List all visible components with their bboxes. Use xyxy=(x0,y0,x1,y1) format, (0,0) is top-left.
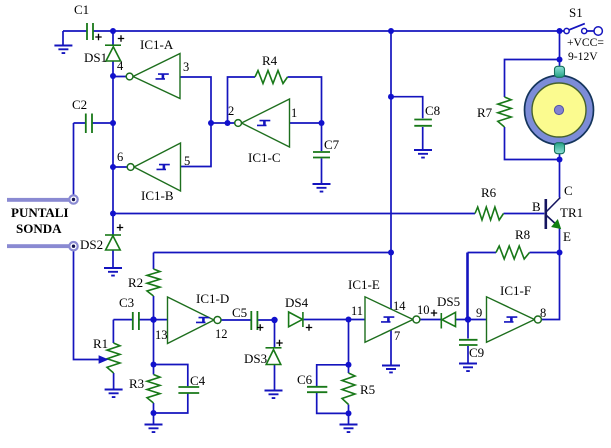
svg-text:IC1-B: IC1-B xyxy=(141,188,174,203)
svg-text:C2: C2 xyxy=(72,97,87,112)
svg-text:12: 12 xyxy=(215,327,228,341)
svg-text:+VCC=: +VCC= xyxy=(567,36,604,49)
svg-text:DS4: DS4 xyxy=(285,295,309,310)
svg-text:IC1-F: IC1-F xyxy=(500,283,531,298)
svg-text:C8: C8 xyxy=(425,103,440,118)
svg-text:PUNTALI: PUNTALI xyxy=(11,205,69,220)
svg-text:4: 4 xyxy=(117,59,124,73)
svg-text:IC1-D: IC1-D xyxy=(196,291,229,306)
svg-text:10: 10 xyxy=(417,303,430,317)
svg-text:DS2: DS2 xyxy=(80,237,103,252)
svg-text:IC1-A: IC1-A xyxy=(140,37,174,52)
svg-text:C9: C9 xyxy=(469,345,484,360)
svg-text:DS3: DS3 xyxy=(244,351,267,366)
svg-text:IC1-C: IC1-C xyxy=(248,150,281,165)
svg-text:R8: R8 xyxy=(515,227,530,242)
svg-text:C7: C7 xyxy=(324,137,340,152)
svg-text:DS5: DS5 xyxy=(437,294,460,309)
svg-text:11: 11 xyxy=(351,304,363,318)
svg-text:R4: R4 xyxy=(262,53,278,68)
svg-text:S1: S1 xyxy=(569,5,583,20)
svg-text:R1: R1 xyxy=(93,336,108,351)
svg-text:C6: C6 xyxy=(297,372,313,387)
svg-text:R6: R6 xyxy=(481,185,497,200)
svg-text:3: 3 xyxy=(183,60,189,74)
svg-text:9: 9 xyxy=(476,306,482,320)
svg-text:7: 7 xyxy=(394,329,400,343)
svg-text:SONDA: SONDA xyxy=(16,221,62,236)
svg-text:C1: C1 xyxy=(74,2,89,17)
svg-text:IC1-E: IC1-E xyxy=(348,277,380,292)
svg-text:9-12V: 9-12V xyxy=(568,50,598,63)
svg-text:2: 2 xyxy=(228,104,234,118)
svg-text:8: 8 xyxy=(540,306,546,320)
svg-text:C5: C5 xyxy=(232,305,247,320)
svg-text:B: B xyxy=(532,199,541,214)
svg-text:R5: R5 xyxy=(360,382,375,397)
svg-text:R3: R3 xyxy=(129,376,144,391)
svg-text:1: 1 xyxy=(291,106,297,120)
svg-text:TR1: TR1 xyxy=(560,205,583,220)
svg-text:R2: R2 xyxy=(128,275,143,290)
svg-text:13: 13 xyxy=(155,328,168,342)
svg-text:6: 6 xyxy=(117,150,123,164)
svg-text:5: 5 xyxy=(184,154,190,168)
svg-text:C4: C4 xyxy=(190,373,206,388)
svg-text:C: C xyxy=(564,183,573,198)
svg-text:C3: C3 xyxy=(119,295,134,310)
svg-text:DS1: DS1 xyxy=(84,50,107,65)
svg-text:E: E xyxy=(563,229,571,244)
svg-text:14: 14 xyxy=(393,299,406,313)
svg-text:R7: R7 xyxy=(477,105,493,120)
